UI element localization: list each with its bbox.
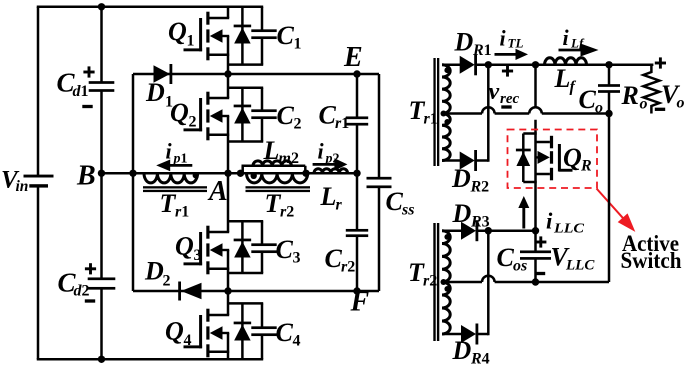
svg-text:D: D xyxy=(452,199,472,228)
wire node to Cr2 xyxy=(356,173,359,230)
svg-text:Q: Q xyxy=(563,143,582,172)
wire E down to Cr1 xyxy=(356,74,359,118)
transistor Q2 xyxy=(184,74,277,173)
label DR2 xyxy=(451,164,489,196)
svg-text:2: 2 xyxy=(286,204,294,221)
svg-text:2: 2 xyxy=(163,273,171,290)
svg-text:1: 1 xyxy=(341,115,349,132)
svg-text:R: R xyxy=(621,81,639,110)
label D2 xyxy=(144,257,171,290)
svg-text:C: C xyxy=(276,235,294,264)
svg-text:i: i xyxy=(318,139,325,164)
svg-text:TL: TL xyxy=(508,36,524,51)
label Cd2 minus xyxy=(85,299,95,302)
wire D1 row xyxy=(133,73,357,76)
svg-text:B: B xyxy=(76,161,96,192)
arrow iLf xyxy=(559,44,599,57)
svg-text:R: R xyxy=(470,351,482,368)
svg-text:D: D xyxy=(454,28,474,57)
node Lm2 left junction xyxy=(237,170,244,177)
svg-text:o: o xyxy=(640,96,648,113)
wire VLLC bottom xyxy=(442,276,609,282)
node F xyxy=(353,287,360,294)
svg-text:1: 1 xyxy=(294,36,302,53)
capacitor Cos xyxy=(520,250,551,259)
svg-text:C: C xyxy=(325,244,343,273)
capacitor Cd1 xyxy=(89,81,115,92)
wire F row xyxy=(228,290,379,293)
annotation red arrow xyxy=(597,189,636,232)
label Tr2 secondary xyxy=(408,258,437,290)
wire A to Tr2 xyxy=(228,172,357,175)
svg-text:Q: Q xyxy=(175,232,194,261)
wire Tr1 top to DR1 xyxy=(442,64,460,67)
svg-text:in: in xyxy=(16,178,29,195)
capacitor Cd2 xyxy=(88,277,116,289)
node Tr1 phase dot xyxy=(193,173,199,179)
node Tr1 sec phase dot lower xyxy=(444,119,450,125)
svg-text:i: i xyxy=(563,25,570,50)
label Active Switch xyxy=(621,231,682,273)
wire DR1 to vrec plus xyxy=(475,64,609,67)
wire D1-D2 vertical xyxy=(132,74,135,291)
transformer Tr1 primary winding xyxy=(144,173,198,183)
wire DR3 to QR xyxy=(477,229,536,232)
capacitor Css branch bottom xyxy=(378,187,381,291)
label ip2 xyxy=(318,139,340,167)
wire top rail xyxy=(37,6,262,9)
node Tr2 sec phase dot lower xyxy=(444,286,450,292)
svg-text:C: C xyxy=(497,243,515,272)
svg-text:R: R xyxy=(470,179,482,196)
label Ro xyxy=(621,81,648,113)
label Cd2 plus xyxy=(85,263,96,274)
svg-text:p: p xyxy=(325,152,333,167)
node D-rail junction xyxy=(129,170,136,177)
label VLLC minus xyxy=(535,272,545,275)
svg-text:1: 1 xyxy=(484,42,492,59)
label Tr2 primary xyxy=(265,189,295,221)
svg-text:LLC: LLC xyxy=(565,258,595,274)
transformer Tr1 secondary winding lower xyxy=(442,114,450,161)
label iTL xyxy=(500,26,524,51)
wire output return vertical xyxy=(608,114,611,283)
label iLLC xyxy=(546,209,585,237)
diode D1 xyxy=(154,64,173,84)
wire QR branch xyxy=(534,65,537,231)
svg-text:3: 3 xyxy=(482,214,490,231)
capacitor Co branch xyxy=(608,65,611,114)
label Q1 xyxy=(168,17,195,50)
svg-text:i: i xyxy=(500,26,507,51)
node E xyxy=(353,70,360,77)
label DR3 xyxy=(452,199,490,231)
label Tr1 secondary xyxy=(409,96,438,128)
wire DR3 row xyxy=(442,229,461,232)
svg-text:Lf: Lf xyxy=(570,36,585,51)
diode D2 xyxy=(178,282,201,301)
svg-text:A: A xyxy=(207,176,228,207)
svg-text:1: 1 xyxy=(181,152,188,167)
wire left rail upper xyxy=(37,7,40,176)
capacitor Css branch top xyxy=(378,74,381,178)
wire Cd rail lower xyxy=(100,288,103,359)
node DR3 junction xyxy=(485,227,492,234)
node A junction xyxy=(224,170,231,177)
svg-text:os: os xyxy=(513,258,527,275)
transformer Tr2 secondary core xyxy=(433,223,439,341)
svg-text:E: E xyxy=(343,42,363,73)
transformer Tr2 secondary winding upper xyxy=(442,231,450,282)
svg-text:L: L xyxy=(320,182,337,211)
label B xyxy=(76,161,96,192)
arrow iTL xyxy=(495,49,529,60)
transistor Q4 xyxy=(184,291,277,359)
svg-text:4: 4 xyxy=(184,332,192,349)
transformer Tr1 primary core xyxy=(143,186,207,192)
label VLLC plus xyxy=(535,236,546,247)
label Vo xyxy=(661,80,685,112)
label Cd1 minus xyxy=(82,105,92,108)
svg-text:i: i xyxy=(546,209,553,234)
wire Lf to output xyxy=(609,64,653,67)
annotation active switch box xyxy=(508,130,598,189)
node Tr1 center tap xyxy=(441,111,447,117)
transformer Tr2 primary winding xyxy=(247,173,308,183)
diode DR4 xyxy=(461,324,478,345)
svg-text:4: 4 xyxy=(482,351,490,368)
arrow ip1 xyxy=(156,160,192,172)
label Cos xyxy=(497,243,528,275)
wire D2 row xyxy=(133,290,228,293)
capacitor C4 label xyxy=(276,318,301,350)
label Q4 xyxy=(165,317,192,350)
svg-text:Q: Q xyxy=(170,98,189,127)
node Tr2 center tap xyxy=(441,279,447,285)
node Q1-Q2 junction xyxy=(224,70,231,77)
svg-text:i: i xyxy=(166,139,173,164)
svg-text:1: 1 xyxy=(430,111,438,128)
svg-text:C: C xyxy=(277,101,295,130)
label Co xyxy=(579,85,604,117)
node Tr2 sec phase dot upper xyxy=(444,234,450,240)
wire Cr2 to F xyxy=(356,236,359,291)
svg-text:2: 2 xyxy=(429,273,437,290)
svg-text:1: 1 xyxy=(181,204,189,221)
svg-text:v: v xyxy=(489,79,500,105)
svg-text:R: R xyxy=(470,214,482,231)
wire Tr2 to Lr node xyxy=(0,0,1,1)
svg-text:3: 3 xyxy=(194,247,202,264)
label Vo plus xyxy=(655,57,666,68)
node Tr1 sec phase dot upper xyxy=(444,67,450,73)
capacitor Co xyxy=(598,84,620,93)
label D1 xyxy=(145,78,173,111)
node top rail junction xyxy=(98,3,105,10)
svg-text:D: D xyxy=(145,78,165,107)
svg-text:L: L xyxy=(263,136,280,165)
label iLf xyxy=(563,25,585,51)
svg-text:R: R xyxy=(472,42,484,59)
svg-text:C: C xyxy=(386,187,404,216)
arrow ip2 xyxy=(313,158,348,170)
svg-text:r: r xyxy=(336,197,343,214)
inductor Lr xyxy=(314,169,348,174)
svg-text:C: C xyxy=(276,318,294,347)
transistor Q3 xyxy=(184,173,277,291)
wire DR4 to vertical xyxy=(477,333,489,336)
capacitor Cr2 xyxy=(346,229,368,237)
svg-text:L: L xyxy=(554,64,571,93)
label F xyxy=(350,287,370,318)
label Lr xyxy=(320,182,343,214)
svg-text:m: m xyxy=(279,150,291,167)
svg-text:o: o xyxy=(677,95,685,112)
transformer Tr1 secondary winding upper xyxy=(442,65,450,114)
wire E to Css corner xyxy=(357,73,379,76)
wire DR3-DR4 cathode vertical xyxy=(487,231,490,336)
inductor Lm2 xyxy=(242,161,306,173)
wire DR1-DR2 cathode vertical xyxy=(487,65,490,162)
label vrec plus xyxy=(502,65,513,76)
wire B to Tr1 xyxy=(102,172,229,175)
diode DR2 xyxy=(460,150,477,171)
node QR-DR3 junction xyxy=(532,227,539,234)
label Cr1 xyxy=(319,101,350,133)
transistor Q1 xyxy=(184,7,277,74)
svg-text:C: C xyxy=(579,85,597,114)
wire left rail lower xyxy=(37,186,40,360)
node bottom rail junction xyxy=(98,356,105,363)
label Lm2 xyxy=(263,136,299,167)
label Cd1 xyxy=(57,68,89,101)
node Co bottom junction xyxy=(605,110,612,117)
capacitor Cr1 xyxy=(346,116,368,125)
wire DR2 to vertical xyxy=(475,159,488,162)
diode DR1 xyxy=(460,54,477,75)
svg-text:3: 3 xyxy=(293,250,301,267)
svg-text:T: T xyxy=(160,189,177,218)
label Css xyxy=(386,187,415,219)
label Cd2 xyxy=(58,268,90,300)
svg-text:2: 2 xyxy=(291,150,299,167)
svg-text:p: p xyxy=(173,152,181,167)
svg-text:2: 2 xyxy=(294,116,302,133)
svg-text:1: 1 xyxy=(81,83,89,100)
wire Cd rail upper xyxy=(100,7,103,83)
svg-text:Q: Q xyxy=(165,317,184,346)
svg-text:ss: ss xyxy=(401,202,414,219)
label Tr1 primary xyxy=(160,189,190,221)
wire Cd rail mid xyxy=(100,91,103,279)
capacitor C2 label xyxy=(277,101,302,133)
capacitor C3 label xyxy=(276,235,301,267)
svg-text:o: o xyxy=(595,100,603,117)
capacitor C1 label xyxy=(277,21,302,53)
battery Vin xyxy=(24,175,54,188)
svg-text:R: R xyxy=(580,158,592,175)
svg-text:C: C xyxy=(277,21,295,50)
svg-text:T: T xyxy=(265,189,282,218)
label Cd1 plus xyxy=(83,66,94,77)
label ip1 xyxy=(166,139,188,167)
label vrec xyxy=(489,79,520,107)
svg-text:2: 2 xyxy=(481,179,489,196)
svg-text:C: C xyxy=(319,101,337,130)
resistor Ro xyxy=(643,65,659,114)
transformer Tr2 primary core xyxy=(246,186,311,192)
node B xyxy=(98,170,105,177)
svg-text:Switch: Switch xyxy=(621,248,682,273)
svg-text:D: D xyxy=(144,257,164,286)
node Lr-Cr junction xyxy=(353,170,360,177)
node vrec-Lf junction xyxy=(532,61,539,68)
svg-text:2: 2 xyxy=(82,283,90,300)
svg-text:2: 2 xyxy=(333,152,340,167)
svg-text:LLC: LLC xyxy=(553,222,585,237)
node Lm2 right junction xyxy=(302,170,309,177)
svg-text:D: D xyxy=(452,336,472,365)
wire Tr1 bottom to DR2 xyxy=(442,159,460,162)
wire bottom rail xyxy=(37,358,262,361)
label DR1 xyxy=(454,28,492,60)
label QR xyxy=(563,143,592,175)
node Cos bottom junction xyxy=(532,278,539,285)
capacitor Css xyxy=(367,177,392,188)
arrow iLLC xyxy=(518,196,529,229)
node Tr2 phase dot xyxy=(251,173,257,179)
label Q3 xyxy=(175,232,202,265)
label E xyxy=(343,42,363,73)
transformer Tr2 secondary winding lower xyxy=(442,282,450,334)
label Vin xyxy=(1,167,28,196)
svg-text:4: 4 xyxy=(293,333,301,350)
svg-text:Q: Q xyxy=(168,17,187,46)
label VLLC xyxy=(551,243,596,274)
inductor Lf xyxy=(545,58,587,65)
node Q3-Q4 junction xyxy=(224,287,231,294)
svg-text:2: 2 xyxy=(189,114,197,131)
svg-text:D: D xyxy=(451,164,471,193)
label A xyxy=(207,176,228,207)
transformer Tr1 secondary core xyxy=(433,58,439,166)
diode DR3 xyxy=(461,220,478,241)
label Lf xyxy=(554,64,577,96)
node Co top junction xyxy=(605,61,612,68)
wire Cr1 to Lr node xyxy=(356,124,359,173)
node DR junction top xyxy=(485,61,492,68)
wire DR4 row xyxy=(442,333,461,336)
label Vo minus xyxy=(655,108,665,111)
label vrec minus xyxy=(501,105,511,108)
label Q2 xyxy=(170,98,197,131)
label DR4 xyxy=(452,336,490,368)
capacitor Cos branch xyxy=(534,231,537,282)
wire vrec xyxy=(442,107,609,113)
svg-text:2: 2 xyxy=(347,259,355,276)
svg-text:1: 1 xyxy=(187,33,195,50)
svg-text:rec: rec xyxy=(500,91,519,107)
transistor QR xyxy=(516,134,573,183)
label Cr2 xyxy=(325,244,356,276)
